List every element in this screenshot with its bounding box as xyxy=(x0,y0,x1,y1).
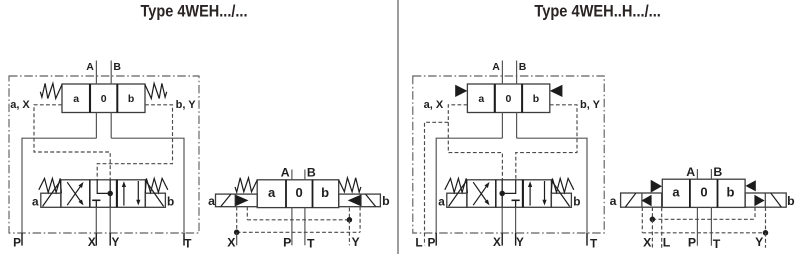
V2 right pilot diagonal xyxy=(145,180,163,206)
port tail Y dark (right) xyxy=(515,233,517,246)
port tail P dark (right) xyxy=(435,233,437,246)
port line A xyxy=(95,61,97,85)
svg-text:Y: Y xyxy=(755,235,763,249)
V3 right solenoid diagonal xyxy=(366,194,376,206)
V3 port tail Y (dashed) xyxy=(348,220,350,246)
svg-text:X: X xyxy=(493,235,501,249)
svg-text:L: L xyxy=(663,235,671,249)
V6 junction dot Y xyxy=(763,230,769,236)
V2 left spring xyxy=(39,178,62,193)
port line B (right) xyxy=(516,61,518,85)
V6 dashed link lower xyxy=(642,232,765,234)
V5 body xyxy=(467,180,552,208)
svg-text:Type 4WEH.../...: Type 4WEH.../... xyxy=(141,1,248,20)
V3 left solenoid diagonal xyxy=(221,194,231,206)
V6 port tail Y (dashed) xyxy=(765,233,767,248)
V5 divider 1 xyxy=(495,180,497,208)
svg-text:X: X xyxy=(643,235,652,249)
svg-text:b, Y: b, Y xyxy=(176,99,197,111)
wire to P (right block) xyxy=(436,138,502,245)
enclosure dash-dot border (left block) xyxy=(9,76,199,233)
svg-text:b: b xyxy=(787,194,795,208)
V3 right spring xyxy=(339,178,361,192)
V3 port line P xyxy=(291,208,293,246)
V5 cell3 up arrow xyxy=(529,186,531,206)
svg-text:0: 0 xyxy=(101,93,107,105)
valve V1 body (3 positions a 0 b) xyxy=(62,84,145,113)
wire A-stub below V1 xyxy=(95,113,97,139)
V5 right pilot box xyxy=(551,193,571,207)
wire Y (through V2 to port) xyxy=(109,180,111,208)
V6 left actuator box xyxy=(621,193,662,207)
svg-text:A: A xyxy=(686,165,695,179)
svg-text:P: P xyxy=(427,236,435,250)
V5 cell1 cross arrow 1 xyxy=(473,186,487,205)
svg-text:b: b xyxy=(573,195,580,209)
V6 left solenoid diagonal xyxy=(625,193,635,207)
wire to T (right block) xyxy=(517,138,587,245)
V6 port stub A xyxy=(696,169,698,179)
svg-text:b: b xyxy=(167,195,174,209)
V5 cell2 L-line to b,Y xyxy=(503,180,515,194)
V3 divider a/0 xyxy=(285,180,287,208)
svg-text:a: a xyxy=(610,194,617,208)
port tail X dark (right) xyxy=(501,233,503,246)
V6 port stub B xyxy=(710,169,712,179)
svg-text:P: P xyxy=(688,235,696,249)
V6 upper-right pilot triangle xyxy=(745,180,755,191)
port tail P dark xyxy=(21,233,23,246)
V2 divider 1 xyxy=(89,180,91,208)
svg-text:A: A xyxy=(281,166,290,180)
V2 cell1 cross arrow 2 xyxy=(67,182,81,201)
wire B-stub below V4 xyxy=(516,113,518,139)
svg-text:P: P xyxy=(283,235,291,249)
V6 divider a/0 xyxy=(689,179,691,207)
V6 port line P xyxy=(696,207,698,245)
V5 left pilot diagonal xyxy=(449,180,467,206)
wire B-stub below V1 xyxy=(110,113,112,139)
V3 port line T xyxy=(304,208,306,246)
V3 left actuator divider xyxy=(234,194,236,207)
svg-text:b, Y: b, Y xyxy=(580,99,601,111)
V6 right actuator divider xyxy=(764,193,766,207)
V2 cell3 down arrow xyxy=(137,181,139,201)
svg-text:a: a xyxy=(268,185,276,200)
V6 port line L (dashed) xyxy=(661,207,663,247)
port tail T dark (right) xyxy=(586,233,588,246)
V3 right pilot triangle xyxy=(348,195,361,206)
port tail T dark xyxy=(183,233,185,246)
column divider rule xyxy=(397,0,399,254)
V4 divider a/0 xyxy=(494,84,496,113)
V2 cell3 up arrow xyxy=(123,186,125,206)
svg-text:0: 0 xyxy=(505,93,511,105)
svg-text:b: b xyxy=(128,93,134,105)
svg-text:Y: Y xyxy=(516,235,524,249)
V6 stub right-inner (dashed) xyxy=(754,207,756,219)
V3 port stub A xyxy=(291,170,293,180)
V3 left actuator box xyxy=(216,194,258,207)
V5 cell3 down arrow xyxy=(544,181,546,201)
pilot line b,Y (dashed) xyxy=(97,105,172,180)
V2 cell2 blocked-port T symbol xyxy=(92,199,100,201)
V5 cell1 cross arrow 2 xyxy=(473,182,487,201)
svg-text:0: 0 xyxy=(295,185,302,200)
V5 right spring xyxy=(551,178,574,193)
svg-text:a: a xyxy=(32,195,39,209)
wire X (from T symbol to port) xyxy=(95,200,97,207)
V6 stub left-outer (dashed) xyxy=(641,207,643,233)
V5 cell2 junction dot xyxy=(499,191,505,197)
wire to P (left) xyxy=(22,138,96,245)
V3 port tail X xyxy=(236,232,238,245)
svg-text:a, X: a, X xyxy=(10,99,30,111)
V6 stub Y (dashed) xyxy=(765,207,767,233)
svg-text:a: a xyxy=(478,93,484,105)
V3 junction dot Y xyxy=(347,217,353,223)
V5 divider 2 xyxy=(522,180,524,208)
pilot line a,X ext (dashed) xyxy=(448,105,502,180)
V3 left spring xyxy=(235,178,257,192)
V3 port stub B xyxy=(304,170,306,180)
svg-text:X: X xyxy=(227,235,236,249)
svg-text:L: L xyxy=(415,236,422,250)
V2 cell1 cross arrow 1 xyxy=(67,186,81,205)
enclosure dash-dot border (right block) xyxy=(413,76,604,233)
V6 upper-left pilot triangle xyxy=(651,180,662,193)
wire to T (right) xyxy=(111,138,184,245)
V3 junction dot X xyxy=(234,230,240,236)
V3 divider 0/b xyxy=(312,180,314,208)
svg-text:b: b xyxy=(382,194,390,208)
svg-text:0: 0 xyxy=(700,185,707,200)
V1 divider a/0 xyxy=(89,84,91,113)
svg-text:b: b xyxy=(321,185,329,200)
V2 right spring xyxy=(145,178,168,193)
V4 right pilot triangle xyxy=(550,85,563,97)
V1 divider 0/b xyxy=(116,84,118,113)
V3 dashed link X-level xyxy=(237,231,360,233)
V5 left spring xyxy=(445,178,468,193)
V6 left inner triangle xyxy=(641,195,651,206)
V2 right pilot box xyxy=(145,193,165,207)
V3 dashed link Y-level xyxy=(247,219,349,221)
V6 divider 0/b xyxy=(717,179,719,207)
V4 divider 0/b xyxy=(521,84,523,113)
V3 pilot stub right-inner (dashed) xyxy=(348,208,350,220)
V2 left pilot box xyxy=(41,193,61,207)
V5 left pilot box xyxy=(447,193,467,207)
V3 pilot stub left-inner (dashed) xyxy=(246,207,248,220)
V6 junction dot X xyxy=(650,217,656,223)
pilot line a,X (dashed) xyxy=(34,105,110,180)
svg-text:a: a xyxy=(438,195,445,209)
port tail X dark xyxy=(95,233,97,246)
V6 dashed link upper xyxy=(652,218,755,220)
V4 left pilot triangle xyxy=(455,85,467,97)
svg-text:b: b xyxy=(727,185,735,200)
pilot line b,Y ext (dashed) xyxy=(516,105,577,180)
svg-text:B: B xyxy=(307,166,316,180)
wire X (through V5 to port) xyxy=(501,180,503,208)
V6 port line T xyxy=(710,207,712,245)
V3 left pilot triangle xyxy=(236,195,249,206)
V2 body xyxy=(61,180,146,208)
svg-text:Y: Y xyxy=(351,235,359,249)
svg-text:A: A xyxy=(492,61,500,73)
V5 right pilot diagonal xyxy=(551,180,569,206)
svg-text:a: a xyxy=(73,93,79,105)
wire A-stub below V4 xyxy=(501,113,503,139)
svg-text:B: B xyxy=(519,61,527,73)
wire Y (from T symbol to port) xyxy=(515,200,517,207)
V6 right inner triangle xyxy=(754,195,764,206)
V1 left spring xyxy=(40,83,62,98)
port line B xyxy=(110,61,112,85)
V6 left actuator divider xyxy=(641,193,643,207)
svg-text:P: P xyxy=(13,236,21,250)
V6 right actuator box xyxy=(745,193,786,207)
port tail Y dark xyxy=(109,233,111,246)
V3 pilot drain stub left-outer (dashed) xyxy=(236,207,238,233)
V1 right spring xyxy=(145,83,167,98)
svg-text:a, X: a, X xyxy=(424,99,444,111)
svg-text:a: a xyxy=(672,185,680,200)
V6 right solenoid diagonal xyxy=(771,193,781,207)
svg-text:T: T xyxy=(307,236,315,250)
svg-text:B: B xyxy=(713,165,722,179)
V3 right actuator box xyxy=(339,194,381,207)
svg-text:b: b xyxy=(533,93,539,105)
svg-text:Y: Y xyxy=(111,235,119,249)
V3 right actuator divider xyxy=(360,194,362,207)
V6 stub X (dashed) xyxy=(651,207,653,219)
V3 body xyxy=(257,180,339,208)
V2 left pilot diagonal xyxy=(43,180,61,206)
pilot branch to L (dashed) xyxy=(425,122,449,245)
svg-text:T: T xyxy=(713,237,721,251)
V2 cell2 junction dot xyxy=(107,191,113,197)
V3 pilot drain stub right-outer (dashed) xyxy=(359,207,361,233)
valve V4 body xyxy=(467,84,549,113)
svg-text:a: a xyxy=(208,194,215,208)
port line A (right) xyxy=(501,61,503,85)
V2 cell2 Y-branch L-line xyxy=(97,180,109,194)
V6 port tail X (dashed) xyxy=(651,219,653,247)
svg-text:A: A xyxy=(86,61,94,73)
svg-text:T: T xyxy=(184,236,192,250)
V6 body xyxy=(662,179,745,207)
V2 divider 2 xyxy=(116,180,118,208)
svg-text:T: T xyxy=(590,236,598,250)
V5 cell2 blocked-port T symbol xyxy=(512,199,520,201)
svg-text:X: X xyxy=(88,235,96,249)
svg-text:B: B xyxy=(113,61,121,73)
svg-text:Type 4WEH..H.../...: Type 4WEH..H.../... xyxy=(534,1,661,20)
